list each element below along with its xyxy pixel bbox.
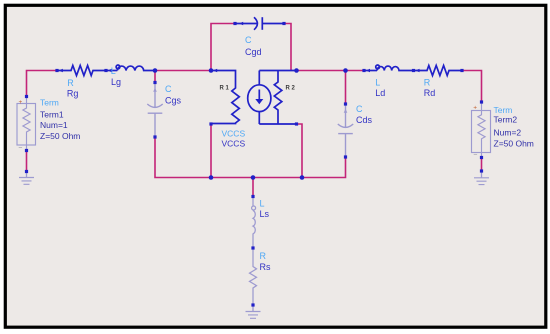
wire Cds branch upper [345, 71, 347, 105]
pin square ground2 [480, 169, 483, 172]
pin square Rg left [55, 69, 58, 72]
svg-text:Z=50 Ohm: Z=50 Ohm [494, 138, 534, 148]
svg-text:+: + [19, 99, 23, 106]
inductor Lg [106, 65, 155, 72]
svg-text:L: L [260, 199, 265, 209]
pin square Term2 top [480, 100, 483, 103]
capacitor Cgs [147, 83, 162, 138]
svg-text:L: L [375, 77, 380, 87]
junction dot bus left [209, 175, 214, 180]
ground under Term1 [19, 178, 34, 185]
pin square Rs bottom [251, 303, 254, 306]
vccs arrow [258, 90, 260, 100]
svg-text:Z=50 Ohm: Z=50 Ohm [40, 131, 80, 141]
inductor Ls [252, 197, 256, 249]
pin square Cds top [344, 102, 347, 105]
resistor Rd [414, 66, 463, 76]
svg-text:Term: Term [494, 105, 513, 115]
wire Term1 to ground [26, 151, 28, 172]
svg-text:C: C [165, 84, 172, 94]
pin square Ls top [251, 195, 254, 198]
wire Cgs branch lower + bus left [155, 137, 346, 178]
capacitor Cgd [235, 17, 284, 30]
pin square Cgs top [153, 81, 156, 84]
ground under Rs [246, 312, 261, 319]
svg-text:Term: Term [40, 97, 59, 107]
pin square Cgd right [282, 22, 285, 25]
svg-text:Num=2: Num=2 [494, 127, 522, 137]
svg-text:Term1: Term1 [40, 109, 64, 119]
svg-text:Rd: Rd [424, 88, 436, 98]
pin square Ls-Rs [251, 246, 254, 249]
junction dot drain node [294, 68, 299, 73]
svg-text:R 2: R 2 [286, 85, 296, 91]
wire drain horizontal [297, 70, 365, 72]
pin square Term1 top [25, 95, 28, 98]
ground under Term2 [474, 178, 489, 185]
VCCS U1 [211, 69, 297, 124]
svg-text:Cgd: Cgd [245, 47, 262, 57]
svg-text:Num=1: Num=1 [40, 120, 68, 130]
wire gate horizontal left [27, 71, 58, 97]
svg-text:Ld: Ld [375, 88, 385, 98]
svg-text:R 1: R 1 [220, 85, 230, 91]
pin square Ld-Rd [412, 69, 415, 72]
pin square Ld left [362, 69, 365, 72]
pin square Rg-Lg [104, 69, 107, 72]
junction dot bus right [300, 175, 305, 180]
svg-text:−: − [473, 151, 477, 158]
wire Cgd loop left [211, 24, 235, 71]
svg-text:VCCS: VCCS [222, 128, 246, 138]
wire VCCS pin4 to bus [297, 124, 303, 178]
Term1 [17, 97, 36, 151]
pin square Term2 bottom [480, 156, 483, 159]
pin square Cgd left [233, 22, 236, 25]
pin square VCCS pin3 [209, 122, 212, 125]
svg-text:Rs: Rs [260, 262, 271, 272]
pin square Cds bottom [344, 155, 347, 158]
inductor Ld [364, 65, 414, 72]
svg-text:R: R [67, 78, 74, 88]
wire Cgs branch upper [154, 71, 156, 83]
svg-text:L: L [111, 66, 116, 76]
junction dot Cgs tap [153, 68, 158, 73]
svg-text:Ls: Ls [260, 209, 270, 219]
svg-text:C: C [356, 104, 363, 114]
resistor Rg [57, 66, 106, 76]
pin square ground1 [25, 170, 28, 173]
pin square Term1 bottom [25, 149, 28, 152]
wire Cgd loop right [284, 24, 291, 71]
capacitor Cds [338, 104, 353, 157]
svg-text:−: − [18, 145, 22, 152]
wire Rd to Term2 [462, 71, 482, 103]
junction dot Cds tap [343, 68, 348, 73]
pin square Cgs bottom [153, 135, 156, 138]
Term2 [472, 102, 491, 158]
resistor Rs [250, 248, 257, 305]
vccs output resistor branch R2 [259, 71, 296, 125]
pin square VCCS pin4 [295, 122, 298, 125]
svg-text:+: + [473, 105, 477, 112]
svg-text:Lg: Lg [111, 77, 121, 87]
svg-text:Term2: Term2 [494, 114, 518, 124]
junction dot bus center [251, 175, 256, 180]
junction dot gate node [209, 68, 214, 73]
svg-text:R: R [424, 77, 431, 87]
svg-text:R: R [260, 251, 267, 261]
wire Lg to VCCS pin1 [155, 70, 211, 72]
svg-text:C: C [245, 35, 252, 45]
vccs input resistor branch R1 [211, 71, 239, 124]
svg-text:Cds: Cds [356, 115, 373, 125]
wire source stub to Ls [252, 178, 254, 197]
svg-text:Rg: Rg [67, 88, 79, 98]
wire Term2 to ground [481, 158, 483, 172]
pin square Rd right [460, 69, 463, 72]
svg-text:VCCS: VCCS [222, 139, 246, 149]
vccs current source circle [248, 85, 271, 112]
wire VCCS pin3 to bus [210, 124, 212, 178]
svg-text:Cgs: Cgs [165, 96, 182, 106]
